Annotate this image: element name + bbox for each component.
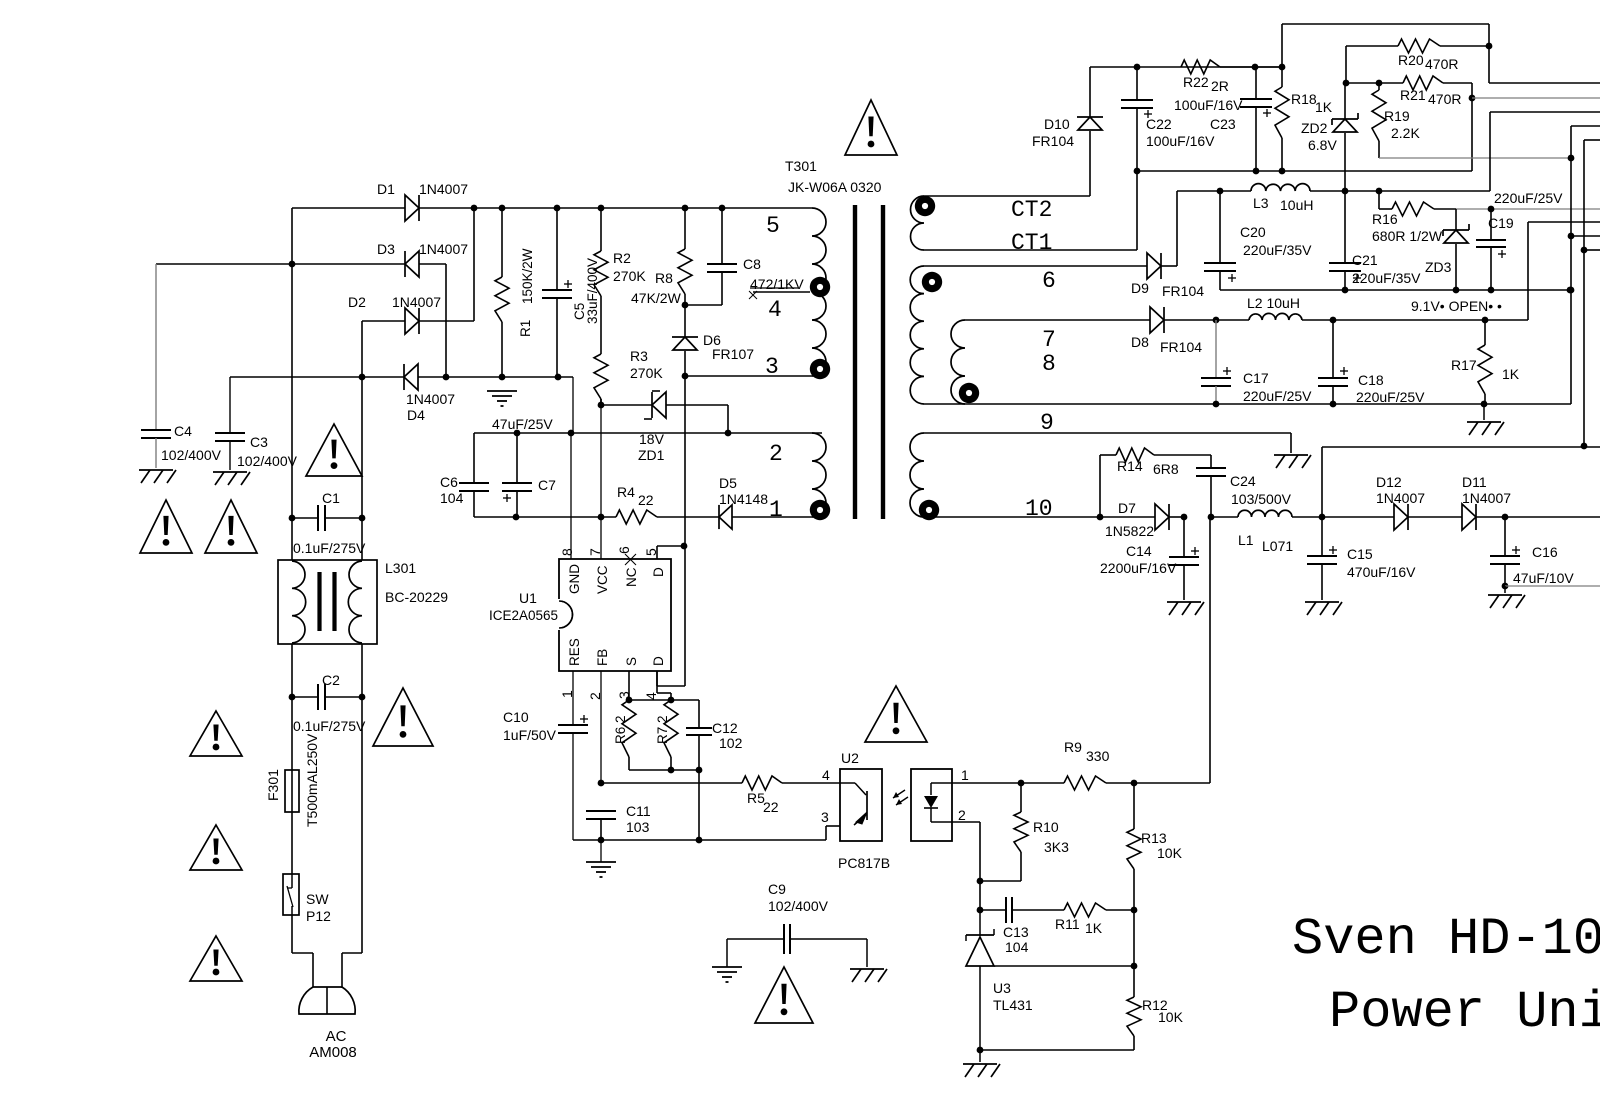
wire R19 bottom y158 <box>1379 155 1574 162</box>
capacitor C23 <box>1174 67 1272 174</box>
wire D9 row <box>924 265 1147 267</box>
svg-text:R18: R18 <box>1291 91 1317 107</box>
svg-text:R22: R22 <box>1183 74 1209 90</box>
label pin 10 <box>1025 496 1053 522</box>
wire sense bottom rail <box>629 770 702 843</box>
resistor R16 <box>1372 191 1456 244</box>
svg-text:D12: D12 <box>1376 474 1402 490</box>
svg-text:R9: R9 <box>1064 739 1082 755</box>
svg-text:C8: C8 <box>743 256 761 272</box>
T301 winding dot pin8 <box>959 383 979 403</box>
U1 pin number 8 <box>559 548 575 556</box>
svg-text:ZD2: ZD2 <box>1301 120 1328 136</box>
line filter L301 <box>278 560 448 644</box>
capacitor C3 <box>215 377 298 470</box>
T301 secondary CT winding <box>911 196 925 250</box>
svg-text:220uF/25V: 220uF/25V <box>1243 388 1312 404</box>
ground chassis under C15 <box>1305 602 1342 615</box>
svg-text:2: 2 <box>769 441 783 467</box>
resistor R22 <box>1181 60 1282 94</box>
svg-text:AM008: AM008 <box>309 1044 357 1061</box>
svg-text:ZD3: ZD3 <box>1425 259 1452 275</box>
svg-text:D10: D10 <box>1044 116 1070 132</box>
svg-text:6: 6 <box>616 546 632 554</box>
U1 pin number 7 <box>587 548 603 556</box>
svg-text:470uF/16V: 470uF/16V <box>1347 564 1416 580</box>
svg-text:472/1KV: 472/1KV <box>750 276 804 292</box>
svg-text:9: 9 <box>1040 410 1054 436</box>
wire live column <box>289 264 296 521</box>
ground chassis C9 right <box>850 939 887 982</box>
U2 light arrows <box>893 790 908 805</box>
wire C23 bottom rail <box>1137 83 1475 174</box>
resistor R14 6R8 <box>1100 448 1211 517</box>
wire C16 out <box>1505 585 1600 587</box>
wire pin4 <box>657 671 674 703</box>
optocoupler U2 PC817B <box>838 750 952 871</box>
svg-text:D: D <box>651 567 666 577</box>
svg-text:C13: C13 <box>1003 924 1029 940</box>
svg-text:102/400V: 102/400V <box>768 898 829 914</box>
ground earth under C11 <box>586 840 616 877</box>
svg-text:10: 10 <box>1025 496 1053 522</box>
svg-text:220uF/35V: 220uF/35V <box>1352 270 1421 286</box>
warning triangle right of C2 <box>373 688 433 746</box>
svg-text:C7: C7 <box>538 477 556 493</box>
resistor R11 1K <box>1055 903 1137 936</box>
label pin 9 <box>1040 410 1054 436</box>
label pin 4 <box>768 297 782 323</box>
svg-text:R16: R16 <box>1372 211 1398 227</box>
U2 LED <box>924 783 952 822</box>
warning triangle col 1 <box>190 711 242 756</box>
svg-text:6.8V: 6.8V <box>1308 137 1337 153</box>
resistor R7 <box>655 700 678 773</box>
wire R16 out y208 <box>1456 206 1600 213</box>
svg-text:T500mAL250V: T500mAL250V <box>304 733 320 827</box>
wire pin3 S <box>626 671 633 703</box>
svg-text:C24: C24 <box>1230 473 1256 489</box>
T301 core <box>855 205 883 519</box>
wire R20 out y83 <box>1489 82 1600 84</box>
capacitor C12 <box>686 720 743 773</box>
svg-text:C10: C10 <box>503 709 529 725</box>
svg-text:C15: C15 <box>1347 546 1373 562</box>
svg-text:C2: C2 <box>322 672 340 688</box>
svg-text:L3: L3 <box>1253 195 1269 211</box>
ground chassis under C3 <box>213 472 250 485</box>
U1 pin name RES <box>567 638 582 666</box>
resistor R1 <box>495 208 535 377</box>
svg-text:6: 6 <box>1042 268 1056 294</box>
svg-text:CT2: CT2 <box>1011 197 1052 223</box>
svg-text:220uF/25V: 220uF/25V <box>1356 389 1425 405</box>
svg-text:C16: C16 <box>1532 544 1558 560</box>
U1 pin number 2 <box>587 692 603 700</box>
svg-text:22: 22 <box>763 799 779 815</box>
wire D2 row <box>362 321 405 377</box>
wire 5V to R9 <box>1134 517 1210 783</box>
svg-text:7: 7 <box>1042 327 1056 353</box>
wire gnd rail <box>573 826 840 840</box>
svg-text:220uF/35V: 220uF/35V <box>1243 242 1312 258</box>
svg-text:C3: C3 <box>250 434 268 450</box>
svg-text:T301: T301 <box>785 158 817 174</box>
label 220uF25V C19 <box>1494 190 1563 206</box>
svg-text:U2: U2 <box>841 750 859 766</box>
svg-text:R17: R17 <box>1451 357 1477 373</box>
wire D3 anode riser <box>419 263 446 265</box>
svg-text:D8: D8 <box>1131 334 1149 350</box>
inductor L3 10uH <box>1251 184 1345 213</box>
svg-text:C14: C14 <box>1126 543 1152 559</box>
resistor R19 <box>1372 83 1420 158</box>
svg-text:R14: R14 <box>1117 458 1143 474</box>
svg-text:C23: C23 <box>1210 116 1236 132</box>
wire right vert x1584 <box>1581 140 1600 449</box>
svg-text:R7 2: R7 2 <box>655 715 670 744</box>
svg-text:470R: 470R <box>1428 91 1461 107</box>
svg-text:220uF/25V: 220uF/25V <box>1494 190 1563 206</box>
wire ZD2 rail to out <box>1345 112 1600 191</box>
capacitor C24 <box>1196 455 1292 517</box>
svg-text:1N4148: 1N4148 <box>719 491 768 507</box>
zener ZD3 <box>1425 209 1469 290</box>
capacitor C13 <box>980 897 1064 955</box>
svg-text:2.2K: 2.2K <box>1391 125 1420 141</box>
resistor R18 <box>1275 67 1333 171</box>
svg-text:270K: 270K <box>630 365 663 381</box>
resistor R21 <box>1400 76 1472 107</box>
T301 primary winding 5-4-3 <box>812 208 826 376</box>
svg-text:680R 1/2W: 680R 1/2W <box>1372 228 1443 244</box>
ground chassis under C4 <box>139 470 176 483</box>
wire R13 node down <box>1131 910 1138 969</box>
label 9.1V OPEN <box>1411 298 1502 314</box>
label pin 6 <box>1042 268 1056 294</box>
U1 pin number 3 <box>616 691 632 699</box>
U2 pin number 3 <box>821 809 829 825</box>
diode D5 <box>719 475 812 529</box>
switch SW P12 <box>283 874 331 924</box>
U1 pin name VCC <box>595 565 610 594</box>
capacitor C18 <box>1318 320 1425 407</box>
svg-text:1N4007: 1N4007 <box>392 294 441 310</box>
resistor R9 330 <box>1064 739 1137 790</box>
wire vcc riser pin7 <box>600 405 602 559</box>
U1 pin name D top <box>651 567 666 577</box>
T301 winding dot CT2 <box>915 196 935 216</box>
svg-text:100uF/16V: 100uF/16V <box>1146 133 1215 149</box>
wire 472/1KV stub <box>749 276 810 299</box>
svg-text:2: 2 <box>958 807 966 823</box>
U1 pin name NC <box>624 567 639 587</box>
wire neutral column <box>359 377 366 521</box>
svg-text:FB: FB <box>595 649 610 666</box>
svg-text:R21: R21 <box>1400 87 1426 103</box>
x mark NC pin <box>625 554 636 565</box>
capacitor C11 <box>586 803 651 843</box>
svg-text:1N4007: 1N4007 <box>419 181 468 197</box>
capacitor C14 <box>1100 517 1199 600</box>
U2 pin number 2 <box>958 807 966 823</box>
svg-text:C20: C20 <box>1240 224 1266 240</box>
capacitor C16 <box>1490 517 1574 589</box>
svg-text:1uF/50V: 1uF/50V <box>503 727 557 743</box>
zener ZD2 6.8V <box>1301 83 1358 191</box>
wire 12V gnd rail y290 <box>1220 287 1573 294</box>
wire winding10 lead <box>924 514 1103 521</box>
svg-text:L1: L1 <box>1238 532 1254 548</box>
ground earth under R1 <box>487 391 517 406</box>
svg-text:10uH: 10uH <box>1280 197 1313 213</box>
svg-text:GND: GND <box>567 564 582 594</box>
svg-text:JK-W06A 0320: JK-W06A 0320 <box>788 179 882 195</box>
T301 winding dot pin6 <box>922 272 942 292</box>
svg-text:D: D <box>651 656 666 666</box>
svg-text:R11: R11 <box>1055 916 1080 932</box>
svg-text:ZD1: ZD1 <box>638 447 665 463</box>
wire U3 anode rail <box>977 1047 1134 1054</box>
diode D3 <box>377 241 468 277</box>
svg-text:P12: P12 <box>306 908 331 924</box>
svg-text:VCC: VCC <box>595 565 610 594</box>
svg-text:D9: D9 <box>1131 280 1149 296</box>
svg-text:SW: SW <box>306 891 329 907</box>
label CT1 <box>1011 230 1052 256</box>
resistor R3 <box>594 348 663 405</box>
svg-text:CT1: CT1 <box>1011 230 1052 256</box>
wire FB to R5 <box>601 782 742 784</box>
wire opto pin1 rail <box>952 780 1064 787</box>
U2 phototransistor <box>840 783 867 825</box>
resistor R2 <box>594 208 646 354</box>
svg-text:1: 1 <box>769 497 783 523</box>
svg-text:8: 8 <box>559 548 575 556</box>
wire live to fuse <box>291 697 293 770</box>
label pin 7 <box>1042 327 1056 353</box>
wire neutral to plug <box>342 697 362 988</box>
svg-text:2200uF/16V: 2200uF/16V <box>1100 560 1177 576</box>
svg-text:10K: 10K <box>1158 1009 1184 1025</box>
U1 pin name S <box>624 657 639 666</box>
diode D6 <box>672 305 754 376</box>
ground chassis under C14 <box>1167 602 1204 615</box>
wire pin1 RES <box>572 671 574 725</box>
svg-text:5: 5 <box>766 213 780 239</box>
wire pin5 to drain <box>657 546 684 559</box>
diode D12 <box>1322 474 1462 530</box>
svg-text:1N4007: 1N4007 <box>419 241 468 257</box>
svg-text:D2: D2 <box>348 294 366 310</box>
svg-text:C19: C19 <box>1488 215 1514 231</box>
wire neutral rail to D3 <box>156 261 405 268</box>
U1 pin name D bottom <box>651 656 666 666</box>
title Power Unit <box>1329 983 1600 1042</box>
svg-text:ICE2A0565: ICE2A0565 <box>489 608 558 623</box>
svg-text:F301: F301 <box>265 769 281 801</box>
svg-text:L301: L301 <box>385 560 416 576</box>
svg-text:47uF/25V: 47uF/25V <box>492 416 553 432</box>
svg-text:103/500V: 103/500V <box>1231 491 1292 507</box>
capacitor C19 <box>1476 209 1514 290</box>
svg-text:C6: C6 <box>440 474 458 490</box>
svg-text:S: S <box>624 657 639 666</box>
svg-text:BC-20229: BC-20229 <box>385 589 448 605</box>
capacitor C9 <box>727 881 867 954</box>
fuse F301 <box>265 733 320 827</box>
warning triangle left A <box>140 500 192 553</box>
svg-text:0.1uF/275V: 0.1uF/275V <box>293 718 366 734</box>
wire R21 rail y83 <box>1343 46 1403 86</box>
ground chassis under R17 <box>1467 404 1504 435</box>
U1 pin name GND <box>567 564 582 594</box>
wire pin D bottom loop <box>657 546 685 686</box>
capacitor C7 <box>502 433 556 520</box>
wire AC line top rail to D1 <box>292 208 405 264</box>
svg-text:C12: C12 <box>712 720 738 736</box>
svg-text:1N4007: 1N4007 <box>406 391 455 407</box>
svg-text:102/400V: 102/400V <box>237 453 298 469</box>
wire D2 cathode riser <box>419 205 477 321</box>
svg-text:1: 1 <box>961 767 969 783</box>
svg-text:FR104: FR104 <box>1032 133 1074 149</box>
svg-text:AC: AC <box>326 1028 347 1045</box>
svg-text:3: 3 <box>765 354 779 380</box>
label CT2 <box>1011 197 1052 223</box>
svg-text:270K: 270K <box>613 268 646 284</box>
label pin 5 <box>766 213 780 239</box>
svg-text:R20: R20 <box>1398 52 1424 68</box>
svg-text:C9: C9 <box>768 881 786 897</box>
svg-text:C11: C11 <box>626 803 651 819</box>
svg-text:22: 22 <box>638 492 654 508</box>
warning triangle left B <box>205 500 257 553</box>
warning triangle col 2 <box>190 825 242 870</box>
diode D11 <box>1462 474 1600 530</box>
resistor R13 10K <box>1127 783 1183 910</box>
U1 pin number 5 <box>643 548 659 556</box>
U2 pin number 1 <box>961 767 969 783</box>
svg-text:L2 10uH: L2 10uH <box>1247 295 1300 311</box>
svg-text:R4: R4 <box>617 484 635 500</box>
svg-text:330: 330 <box>1086 748 1110 764</box>
svg-text:D1: D1 <box>377 181 395 197</box>
U1 pin name FB <box>595 649 610 666</box>
diode D9 <box>1131 191 1204 299</box>
svg-text:102/400V: 102/400V <box>161 447 222 463</box>
svg-text:FR104: FR104 <box>1160 339 1202 355</box>
svg-text:7: 7 <box>587 548 603 556</box>
wire fuse to switch <box>291 812 293 874</box>
svg-text:470R: 470R <box>1425 56 1458 72</box>
T301 secondary winding 7-8 inner <box>951 320 965 404</box>
wire drain column <box>681 376 688 549</box>
capacitor C17 <box>1201 320 1312 407</box>
zener ZD1 18V <box>598 391 732 463</box>
svg-text:R6 2: R6 2 <box>613 715 628 744</box>
svg-text:1N5822: 1N5822 <box>1105 523 1154 539</box>
diode D7 <box>1100 500 1214 539</box>
wire live column 2 <box>289 518 296 700</box>
capacitor C15 <box>1307 517 1416 600</box>
AC plug AM008 <box>299 987 357 1061</box>
wire neutral column 2 <box>359 518 366 700</box>
svg-text:L071: L071 <box>1262 538 1293 554</box>
svg-text:FR107: FR107 <box>712 346 754 362</box>
svg-text:1K: 1K <box>1315 99 1333 115</box>
svg-text:U3: U3 <box>993 980 1011 996</box>
diode D8 <box>1131 307 1219 355</box>
svg-text:C4: C4 <box>174 423 192 439</box>
resistor R6 <box>613 700 636 770</box>
svg-text:1N4007: 1N4007 <box>1376 490 1425 506</box>
svg-text:R10: R10 <box>1033 819 1059 835</box>
svg-text:9.1V• OPEN• •: 9.1V• OPEN• • <box>1411 298 1502 314</box>
wire winding3 lead <box>682 373 812 380</box>
warning triangle above C1 <box>306 424 362 476</box>
label pin 1 <box>769 497 783 523</box>
wire sense top rail <box>629 700 699 728</box>
title Sven HD-10 <box>1292 910 1600 969</box>
wire CT2 lead <box>924 131 1090 196</box>
warning triangle col 3 <box>190 936 242 981</box>
capacitor C20 <box>1204 191 1312 290</box>
diode D10 <box>1032 67 1103 149</box>
wire bridge minus rail <box>230 264 573 433</box>
svg-text:100uF/16V: 100uF/16V <box>1174 97 1243 113</box>
label pin 2 <box>769 441 783 467</box>
wire 5V sense riser <box>1322 447 1600 517</box>
ground earth C9 left <box>712 939 742 982</box>
svg-text:4: 4 <box>643 692 659 700</box>
wire aux bottom rail <box>474 514 616 521</box>
capacitor C10 <box>503 709 588 840</box>
capacitor C2 <box>292 672 366 734</box>
svg-text:1K: 1K <box>1502 366 1520 382</box>
capacitor C21 <box>1329 191 1421 293</box>
svg-text:TL431: TL431 <box>993 997 1033 1013</box>
resistor R10 3K3 <box>980 783 1069 881</box>
wire top rail y67 <box>1090 64 1285 71</box>
svg-text:3K3: 3K3 <box>1044 839 1069 855</box>
wire aux top rail 47uF <box>474 416 822 436</box>
svg-text:104: 104 <box>440 490 464 506</box>
U2 pin number 4 <box>822 767 830 783</box>
capacitor C6 <box>440 433 489 517</box>
wire 9V rail right <box>1333 222 1600 323</box>
svg-text:47uF/10V: 47uF/10V <box>1513 570 1574 586</box>
svg-text:D5: D5 <box>719 475 737 491</box>
T301 winding dot pin4 <box>810 277 830 297</box>
U1 pin number 1 <box>559 690 575 698</box>
inductor L2 10uH <box>1216 295 1336 323</box>
wire R10 node down <box>977 881 984 913</box>
svg-text:D4: D4 <box>407 407 425 423</box>
wire winding8 gnd rail <box>924 401 1571 408</box>
capacitor C1 <box>292 490 366 556</box>
svg-text:4: 4 <box>822 767 830 783</box>
svg-text:6R8: 6R8 <box>1153 461 1179 477</box>
T301 winding dot pin1 <box>810 500 830 520</box>
wire L3 rail <box>1177 188 1382 195</box>
svg-text:NC: NC <box>624 567 639 587</box>
T301 winding dot pin3 <box>810 359 830 379</box>
svg-text:R3: R3 <box>630 348 648 364</box>
svg-text:3: 3 <box>821 809 829 825</box>
wire D1 cathode to + rail <box>419 207 474 209</box>
inductor L1 L071 <box>1211 510 1325 554</box>
